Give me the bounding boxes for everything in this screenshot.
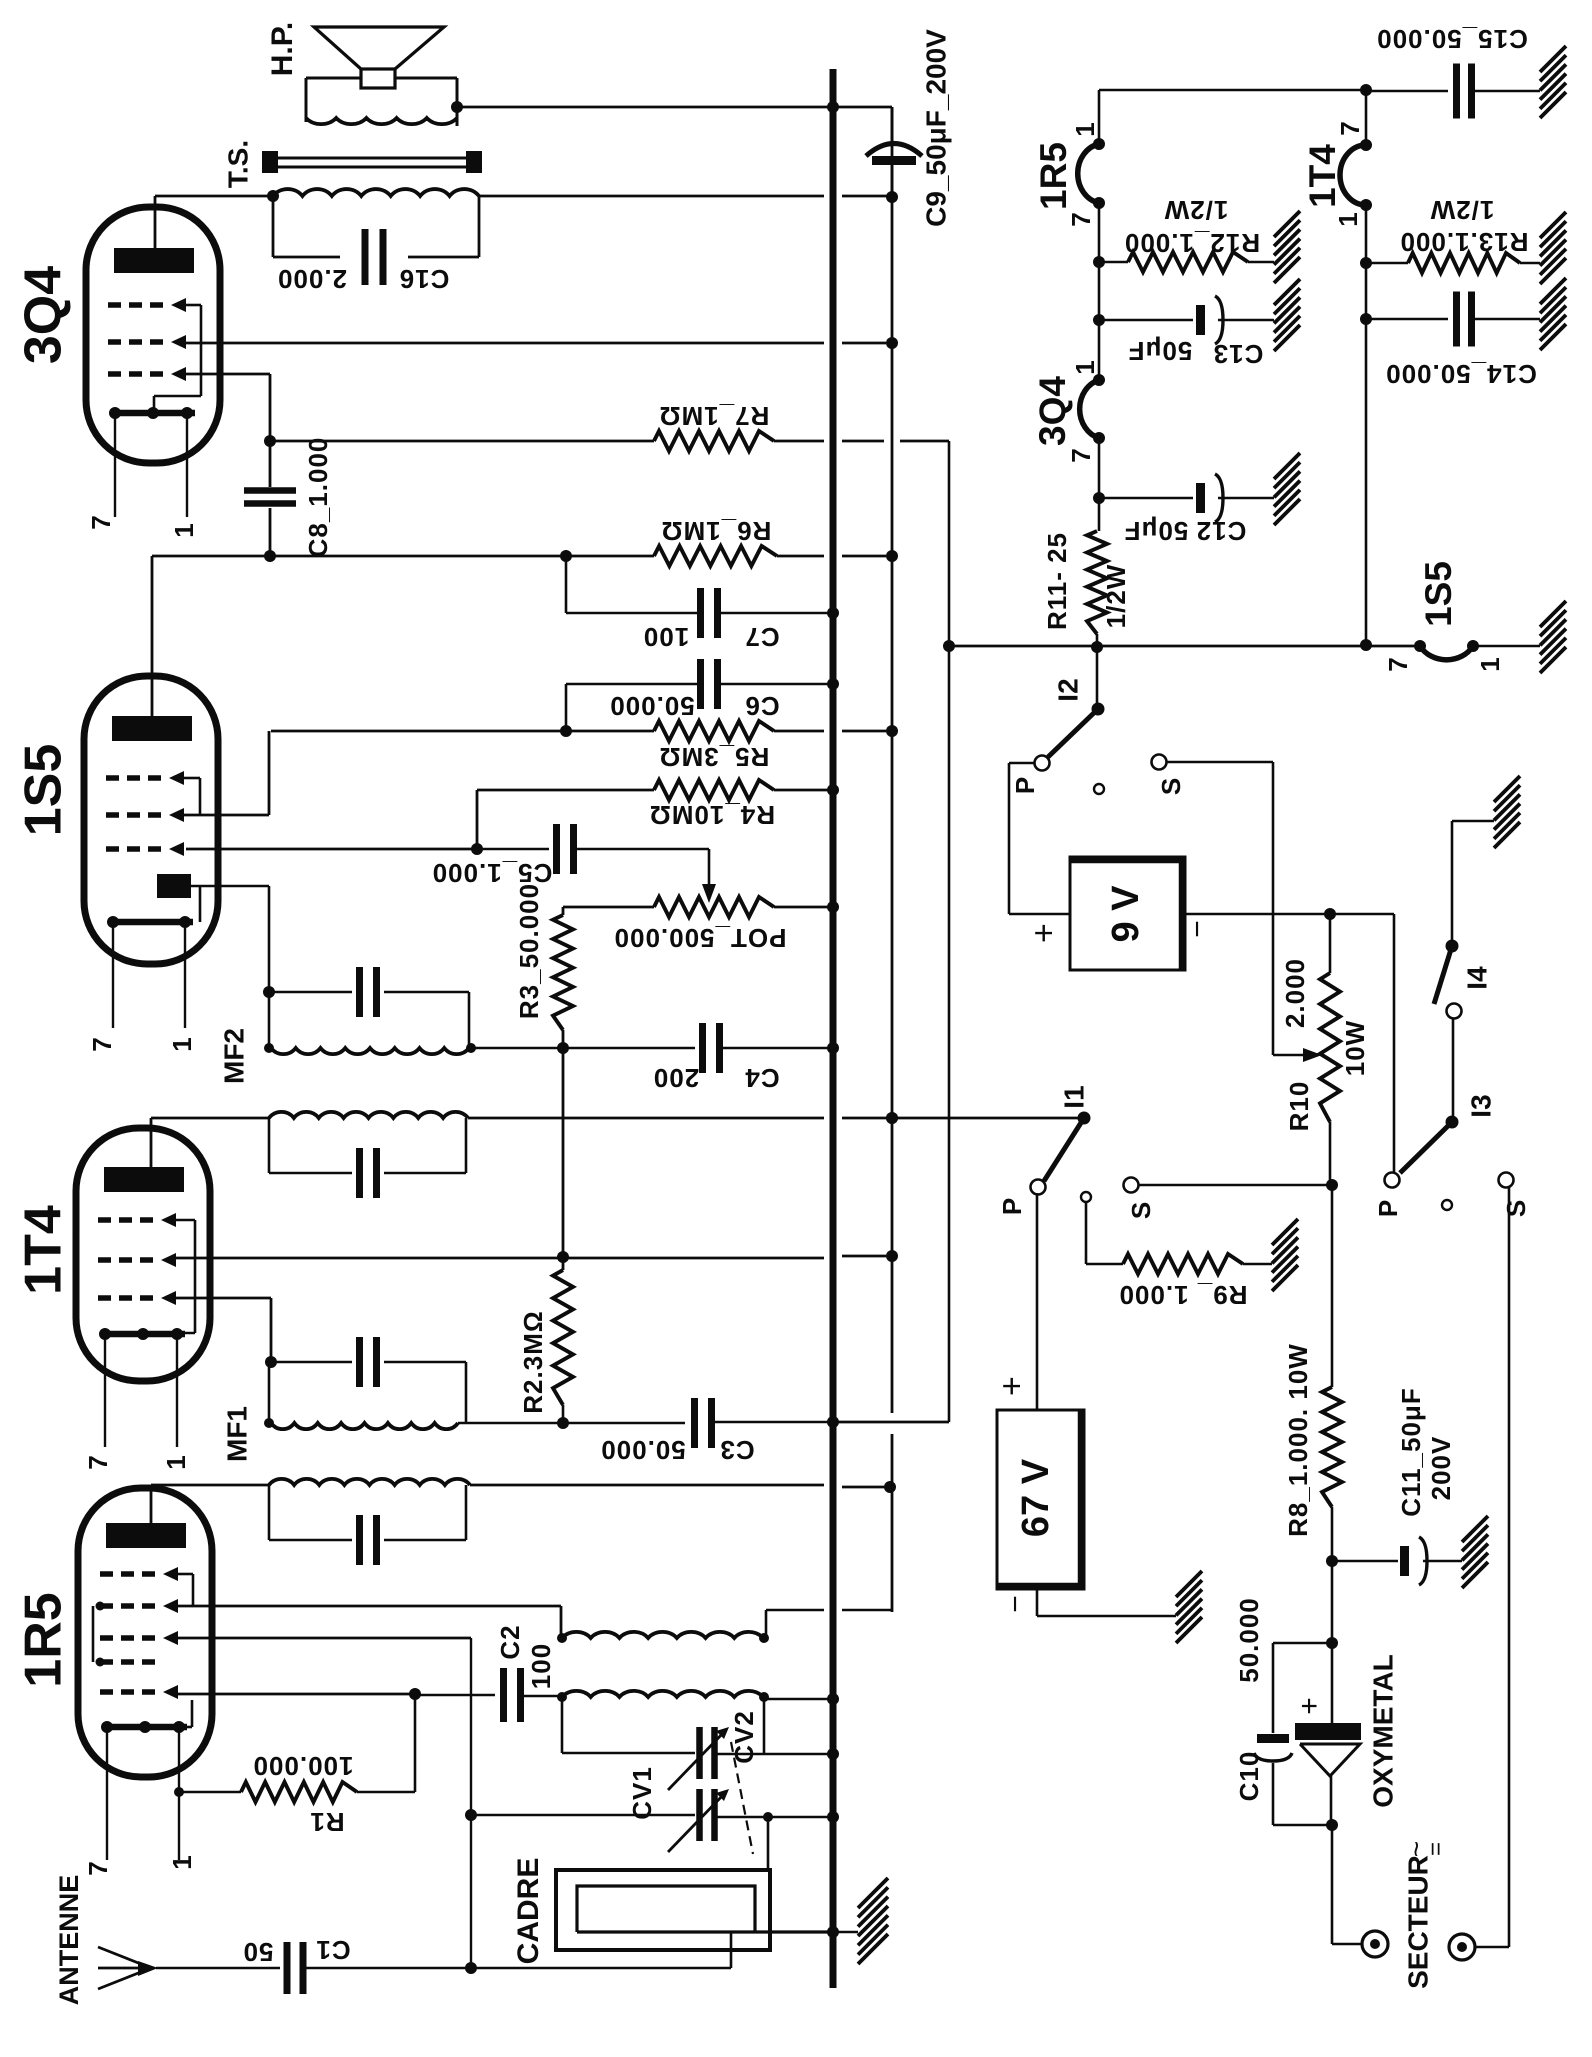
svg-text:1R5: 1R5 bbox=[1033, 142, 1074, 210]
coil MF2 primary bbox=[269, 1112, 468, 1118]
ground C13 bbox=[1274, 279, 1300, 305]
wire POT to bus bbox=[774, 906, 833, 909]
wire T.S. primary right to rail bbox=[479, 195, 824, 198]
svg-text:R3_50.000: R3_50.000 bbox=[514, 883, 544, 1019]
coil MF2 secondary bbox=[271, 1048, 469, 1054]
ground C14 bbox=[1540, 278, 1566, 304]
svg-text:SECTEUR: SECTEUR bbox=[1402, 1855, 1433, 1989]
capacitor C9 bbox=[891, 107, 894, 147]
capacitor C12 bbox=[1196, 483, 1205, 513]
wire I4 to ground bbox=[1451, 821, 1454, 946]
wire MF2 box left top bbox=[268, 992, 271, 1048]
wire MF1 primary left bbox=[151, 1484, 269, 1487]
socket SECTEUR left bbox=[1362, 1931, 1388, 1957]
svg-text:50μF: 50μF bbox=[1124, 516, 1189, 546]
wire I1 mid to R9 bbox=[1085, 1202, 1088, 1264]
wire MF1 primary right to rail bbox=[470, 1484, 824, 1487]
wire heater bottom line bbox=[949, 645, 1420, 648]
svg-text:C8_1.000: C8_1.000 bbox=[303, 437, 333, 558]
switch I2 bbox=[1092, 703, 1105, 716]
resistor R10 bbox=[1329, 914, 1332, 973]
wire R12 to ground bbox=[1248, 261, 1274, 264]
transformer T.S. core bbox=[268, 157, 481, 160]
node rail-plate supply bbox=[886, 191, 898, 203]
node R2 top bbox=[557, 1251, 569, 1263]
svg-text:−: − bbox=[999, 1595, 1032, 1613]
wire battery minus drop to I3 bbox=[1393, 914, 1396, 1173]
capacitor C5 bbox=[477, 848, 549, 851]
wire 3Q4 grid3 drop bbox=[186, 373, 270, 376]
wire heater left rail bbox=[1098, 90, 1101, 144]
svg-text:200V: 200V bbox=[1426, 1436, 1456, 1501]
svg-text:3Q4: 3Q4 bbox=[1032, 376, 1073, 446]
coil MF1 primary bbox=[269, 1479, 470, 1485]
wire R6 to bus hop bbox=[777, 555, 824, 558]
svg-text:67 V: 67 V bbox=[1015, 1458, 1057, 1537]
resistor R8 bbox=[1331, 1185, 1334, 1387]
wire R5 line bbox=[271, 730, 654, 733]
svg-text:1: 1 bbox=[161, 1454, 191, 1469]
svg-text:7: 7 bbox=[83, 1454, 113, 1469]
svg-text:3Q4: 3Q4 bbox=[15, 266, 73, 364]
wire I1 S line bbox=[1138, 1184, 1332, 1187]
ground R12 bbox=[1274, 211, 1300, 237]
wire heater right rail bbox=[1365, 90, 1368, 145]
wire 67V plus riser bbox=[1036, 1193, 1039, 1410]
svg-text:POT_500.000: POT_500.000 bbox=[614, 923, 787, 953]
filament 1S5 bbox=[1420, 646, 1473, 660]
svg-text:50: 50 bbox=[243, 1937, 274, 1967]
resistor R5 bbox=[654, 721, 774, 741]
wire I2 S drop bbox=[1167, 761, 1273, 764]
wire bus to C9 top bbox=[833, 106, 892, 109]
svg-text:1S5: 1S5 bbox=[1418, 561, 1459, 627]
socket SECTEUR right bbox=[1449, 1934, 1475, 1960]
capacitor CV2 bbox=[562, 1752, 695, 1755]
wire CV2 riser bbox=[763, 1697, 766, 1753]
wire R12 line bbox=[1099, 261, 1128, 264]
ground bus ground bbox=[833, 1931, 858, 1934]
svg-text:C10: C10 bbox=[1234, 1751, 1264, 1802]
coil T.S. secondary bbox=[306, 118, 457, 124]
node grid1 junction bbox=[409, 1688, 421, 1700]
wire R7 line bbox=[270, 440, 654, 443]
ground 1S5 fil bbox=[1540, 601, 1566, 627]
wire grid3 1S5 line bbox=[186, 848, 477, 851]
ground 67V bbox=[1176, 1571, 1202, 1597]
wire R11 bottom bbox=[1096, 634, 1099, 647]
wire main chassis bus bbox=[830, 69, 837, 1988]
coil oscillator feedback bbox=[562, 1632, 763, 1638]
capacitor C8 bbox=[269, 441, 272, 487]
filament 1T4 bbox=[1340, 145, 1366, 205]
arrow CV2 bbox=[668, 1730, 726, 1790]
battery 9V bbox=[1070, 857, 1185, 970]
node C11 junction bbox=[1326, 1555, 1338, 1567]
capacitor C10 bbox=[1257, 1734, 1289, 1743]
node R1 left bbox=[174, 1787, 184, 1797]
wire speaker box bbox=[306, 77, 361, 80]
filament 1R5 bbox=[1078, 144, 1099, 203]
wire osc tank left drop bbox=[561, 1697, 564, 1753]
wire divider column bbox=[562, 1048, 565, 1270]
svg-text:100.000: 100.000 bbox=[253, 1751, 354, 1781]
svg-text:100: 100 bbox=[643, 622, 689, 652]
wire C10 branch bbox=[1273, 1642, 1332, 1645]
node C10 bottom bbox=[1326, 1819, 1338, 1831]
arrow CV1 bbox=[668, 1792, 726, 1852]
svg-text:100: 100 bbox=[526, 1643, 556, 1689]
switch I1 bbox=[1078, 1112, 1091, 1125]
wire osc tank right to bus bbox=[764, 1698, 833, 1701]
node R2 bottom junction bbox=[557, 1417, 569, 1429]
tube 1R5 bbox=[78, 1488, 212, 1777]
wire 3Q4 grid2 line bbox=[186, 342, 824, 345]
capacitor MF1 bottom bbox=[268, 1485, 271, 1540]
resistor R1 bbox=[241, 1782, 357, 1802]
capacitor C13 bbox=[1196, 305, 1205, 335]
svg-text:I2: I2 bbox=[1052, 678, 1083, 701]
node heater top right bbox=[1360, 84, 1372, 96]
resistor R12 bbox=[1128, 252, 1248, 272]
wire MF2 primary line to 1T4 bbox=[151, 1117, 269, 1120]
svg-text:C1: C1 bbox=[315, 1935, 350, 1965]
wire signal grid drop bbox=[470, 1638, 472, 1968]
svg-text:50μF: 50μF bbox=[1128, 336, 1193, 366]
wire 1T4 plate riser bbox=[150, 1118, 153, 1167]
wire 1S5 grid2 exit bbox=[179, 814, 269, 817]
svg-text:1R5: 1R5 bbox=[15, 1592, 73, 1687]
svg-text:50.000: 50.000 bbox=[1234, 1597, 1264, 1683]
svg-text:C14_50.000: C14_50.000 bbox=[1385, 359, 1537, 389]
svg-text:I1: I1 bbox=[1058, 1085, 1089, 1108]
wire 1S5 plate riser bbox=[151, 556, 154, 716]
node bus C4 bbox=[827, 1042, 839, 1054]
svg-text:C2: C2 bbox=[495, 1624, 525, 1659]
svg-text:MF2: MF2 bbox=[218, 1028, 249, 1084]
wire C12 line bbox=[1099, 497, 1193, 500]
resistor R6 bbox=[654, 546, 777, 566]
ground C12 bbox=[1274, 453, 1300, 479]
node osc feedback right bbox=[759, 1633, 769, 1643]
svg-text:MF1: MF1 bbox=[221, 1406, 252, 1462]
wire osc feedback to rail bbox=[765, 1610, 768, 1638]
svg-text:7: 7 bbox=[1066, 211, 1096, 226]
svg-text:1/2W: 1/2W bbox=[1430, 195, 1495, 225]
node R6 left junction bbox=[560, 550, 572, 562]
capacitor MF2 top bbox=[269, 991, 352, 994]
wire MF2 primary right to rail bbox=[468, 1117, 824, 1120]
resistor R13 bbox=[1408, 253, 1520, 273]
coil oscillator main bbox=[562, 1691, 763, 1697]
svg-text:+: + bbox=[993, 1376, 1031, 1396]
arrow R10 tap bbox=[1273, 1054, 1310, 1057]
resistor R9 bbox=[1086, 1263, 1123, 1266]
svg-text:C9_50μF_200V: C9_50μF_200V bbox=[920, 29, 951, 227]
svg-text:C11_50μF: C11_50μF bbox=[1396, 1387, 1426, 1516]
svg-text:2.000: 2.000 bbox=[1280, 958, 1310, 1028]
svg-text:CV2: CV2 bbox=[729, 1710, 759, 1764]
capacitor C14 bbox=[1366, 318, 1448, 321]
wire R13 to ground bbox=[1520, 262, 1540, 265]
speaker HP cone bbox=[314, 27, 444, 69]
node bus cadre bbox=[827, 1926, 839, 1938]
ground R13 bbox=[1540, 212, 1566, 238]
wire plate 3Q4 to primary bbox=[155, 195, 273, 198]
wire 1T4 grid2 line bbox=[176, 1257, 824, 1260]
node R3 bottom junction bbox=[557, 1042, 569, 1054]
svg-text:1: 1 bbox=[1070, 121, 1100, 136]
node MF2 sec right bbox=[466, 1043, 476, 1053]
wire R4 to bus bbox=[774, 789, 833, 792]
node C10 top bbox=[1326, 1637, 1338, 1649]
svg-text:C3: C3 bbox=[719, 1435, 754, 1465]
resistor R11 bbox=[1087, 531, 1107, 634]
capacitor MF2 bottom bbox=[268, 1118, 271, 1173]
node rail I1 bbox=[886, 1112, 898, 1124]
node rail MF1 bbox=[884, 1481, 896, 1493]
svg-text:R6_1MΩ: R6_1MΩ bbox=[661, 516, 772, 546]
resistor R4 bbox=[654, 780, 774, 800]
node bus R4 bbox=[827, 784, 839, 796]
svg-text:C7: C7 bbox=[744, 622, 779, 652]
capacitor MF1 top bbox=[271, 1361, 352, 1364]
capacitor C7 bbox=[566, 612, 701, 615]
wire R10 bottom bbox=[1329, 1122, 1332, 1185]
wire 67V minus to ground bbox=[1036, 1589, 1039, 1616]
svg-text:R13.1.000: R13.1.000 bbox=[1400, 227, 1529, 257]
node bus-speaker junction bbox=[827, 101, 839, 113]
svg-text:50.000: 50.000 bbox=[609, 691, 695, 721]
wire C3 line bus to return bbox=[833, 1421, 949, 1424]
node return bottom bbox=[943, 640, 955, 652]
svg-text:S: S bbox=[1126, 1201, 1156, 1219]
node R8 top junction bbox=[1326, 1179, 1338, 1191]
capacitor C3 bbox=[563, 1422, 685, 1425]
wire POT left bbox=[563, 906, 654, 909]
diode OXYMETAL bbox=[1331, 1643, 1334, 1723]
node MF2 top left bbox=[263, 986, 275, 998]
svg-text:R11- 25: R11- 25 bbox=[1042, 532, 1072, 630]
svg-text:+: + bbox=[1293, 1697, 1326, 1715]
coil T.S. primary bbox=[273, 189, 479, 196]
resistor R3 bbox=[553, 915, 573, 1030]
svg-text:CV1: CV1 bbox=[627, 1766, 657, 1820]
svg-text:1/2W: 1/2W bbox=[1101, 564, 1131, 629]
node rail R5 bbox=[886, 725, 898, 737]
svg-text:R1: R1 bbox=[309, 1807, 344, 1837]
tube 3Q4 bbox=[86, 207, 220, 463]
svg-text:T.S.: T.S. bbox=[222, 140, 253, 188]
wire I4-I3 link bbox=[1452, 1018, 1455, 1122]
svg-text:H.P.: H.P. bbox=[266, 22, 299, 76]
node bus C7 bbox=[827, 607, 839, 619]
svg-text:C16: C16 bbox=[399, 264, 450, 294]
svg-text:7: 7 bbox=[86, 514, 116, 529]
node C12 junction bbox=[1093, 492, 1105, 504]
svg-text:1: 1 bbox=[167, 1854, 197, 1869]
svg-text:1: 1 bbox=[1070, 359, 1100, 374]
node MF2 sec left bbox=[264, 1043, 274, 1053]
coil MF1 secondary bbox=[271, 1423, 458, 1429]
wire cadre inner lead bbox=[577, 1930, 833, 1933]
ground C11 bbox=[1462, 1516, 1488, 1542]
node C5 junction bbox=[471, 843, 483, 855]
svg-text:9 V: 9 V bbox=[1105, 885, 1147, 943]
wire R6 line bbox=[152, 555, 654, 558]
svg-text:I4: I4 bbox=[1461, 966, 1492, 990]
wire B+ rail vertical bbox=[891, 107, 894, 1413]
svg-text:R7_1MΩ: R7_1MΩ bbox=[659, 401, 770, 431]
resistor POT bbox=[654, 897, 774, 917]
ground R9 bbox=[1272, 1219, 1298, 1245]
svg-text:P: P bbox=[997, 1197, 1027, 1215]
svg-text:OXYMETAL: OXYMETAL bbox=[1367, 1654, 1398, 1807]
resistor R7 bbox=[654, 431, 774, 451]
switch I3 bbox=[1446, 1116, 1459, 1129]
svg-text:CADRE: CADRE bbox=[512, 1858, 545, 1965]
svg-text:7: 7 bbox=[1066, 447, 1096, 462]
wire osc grid line bbox=[178, 1605, 561, 1608]
node R10 top bbox=[1324, 908, 1336, 920]
node bus C6 bbox=[827, 678, 839, 690]
wire 9V minus bbox=[1185, 913, 1394, 916]
tube 1S5 bbox=[84, 676, 218, 964]
battery 67V bbox=[997, 1410, 1084, 1589]
wire POT tap arrow bbox=[708, 849, 711, 886]
node R13 junction bbox=[1360, 257, 1372, 269]
wire cadre outer riser bbox=[767, 1817, 770, 1870]
svg-text:1: 1 bbox=[1475, 656, 1505, 671]
svg-text:2.000: 2.000 bbox=[277, 264, 347, 294]
svg-text:50.000: 50.000 bbox=[600, 1435, 686, 1465]
node bus POT bbox=[827, 901, 839, 913]
svg-text:1: 1 bbox=[167, 1036, 197, 1051]
node R12 junction bbox=[1093, 256, 1105, 268]
node T.S. primary left bbox=[267, 190, 279, 202]
svg-text:7: 7 bbox=[1383, 656, 1413, 671]
svg-text:1: 1 bbox=[169, 522, 199, 537]
coil CADRE inner bbox=[577, 1886, 755, 1932]
svg-text:R12_1.000: R12_1.000 bbox=[1124, 228, 1260, 258]
wire R1 drop bbox=[414, 1694, 417, 1792]
capacitor C11 bbox=[1332, 1560, 1398, 1563]
wire 1S5 diode drop bbox=[268, 886, 271, 992]
antenna ANTENNE bbox=[98, 1947, 151, 1968]
svg-text:C12: C12 bbox=[1196, 516, 1247, 546]
svg-text:7: 7 bbox=[1335, 120, 1365, 135]
capacitor C1 bbox=[156, 1967, 280, 1970]
svg-text:C13: C13 bbox=[1213, 339, 1264, 369]
node MF1 top left bbox=[265, 1356, 277, 1368]
wire C6 drop to R5 line bbox=[565, 684, 568, 731]
wire rectifier top bbox=[1331, 1561, 1334, 1643]
coil CADRE outer bbox=[556, 1870, 770, 1950]
wire mains right riser bbox=[1476, 1946, 1509, 1949]
svg-text:1/2W: 1/2W bbox=[1164, 195, 1229, 225]
wire heater top tie bbox=[1099, 89, 1366, 92]
node bus osc bbox=[827, 1693, 839, 1705]
wire R3 bottom bbox=[562, 1030, 565, 1048]
wire R4 drop bbox=[476, 790, 479, 849]
wire R7 to bus hop bbox=[774, 440, 824, 443]
wire filament return to bus bbox=[833, 1421, 949, 1424]
wire R4 line bbox=[477, 789, 654, 792]
wire C7 drop bbox=[565, 556, 568, 613]
capacitor C2 bbox=[415, 1694, 495, 1697]
svg-text:S: S bbox=[1156, 777, 1186, 795]
wire to mains left bbox=[1331, 1825, 1334, 1944]
svg-text:R4_10MΩ: R4_10MΩ bbox=[649, 800, 775, 830]
node speaker output bbox=[451, 101, 463, 113]
wire antenna to cadre bbox=[471, 1967, 731, 1970]
wire MF2 box right top bbox=[468, 992, 471, 1048]
wire 1T4 grid3 drop bbox=[176, 1297, 271, 1300]
wire I1 line bbox=[892, 1117, 1084, 1120]
wire gang dashed link bbox=[731, 1742, 753, 1854]
capacitor C6 bbox=[566, 683, 701, 686]
wire I2 P to 9V+ bbox=[1009, 762, 1034, 765]
svg-text:C6: C6 bbox=[744, 691, 779, 721]
node bus CV2 bbox=[827, 1748, 839, 1760]
svg-text:+: + bbox=[1025, 923, 1063, 943]
node osc coil top left bbox=[557, 1692, 567, 1702]
node C8 bottom junction bbox=[264, 550, 276, 562]
wire I2 riser bbox=[1096, 647, 1099, 709]
wire R5 to bus hop bbox=[774, 730, 824, 733]
node I2 line junction bbox=[1091, 641, 1103, 653]
resistor R2 bbox=[553, 1270, 573, 1405]
node C14 junction bbox=[1360, 313, 1372, 325]
wire 1R5 plate riser bbox=[150, 1485, 153, 1523]
node rail MF2 bbox=[886, 1112, 898, 1124]
node C13 junction bbox=[1093, 314, 1105, 326]
ground C15 bbox=[1540, 46, 1566, 72]
wire signal grid line bbox=[178, 1637, 471, 1640]
wire grid1 line bbox=[178, 1693, 415, 1696]
svg-text:R5_3MΩ: R5_3MΩ bbox=[659, 742, 770, 772]
wire speaker line to bus bbox=[457, 106, 833, 109]
node R5 junction bbox=[560, 725, 572, 737]
node MF1 sec left bbox=[264, 1418, 274, 1428]
svg-text:P: P bbox=[1010, 776, 1040, 794]
wire 1S5 fil to ground bbox=[1473, 645, 1540, 648]
svg-text:R10: R10 bbox=[1284, 1081, 1314, 1132]
capacitor C4 bbox=[477, 1047, 695, 1050]
svg-text:7: 7 bbox=[87, 1036, 117, 1051]
node CV1 left junction bbox=[465, 1809, 477, 1821]
svg-text:1: 1 bbox=[1333, 211, 1363, 226]
wire R13 line bbox=[1366, 262, 1408, 265]
svg-text:C4: C4 bbox=[744, 1063, 779, 1093]
svg-text:1T4: 1T4 bbox=[15, 1205, 73, 1295]
node bus CV1 bbox=[827, 1811, 839, 1823]
wire C13 line bbox=[1099, 319, 1193, 322]
node antenna junction bbox=[465, 1962, 477, 1974]
node bus C3 bbox=[827, 1416, 839, 1428]
node osc feedback left bbox=[557, 1633, 567, 1643]
capacitor C15 bbox=[1366, 90, 1448, 93]
node C8 top junction bbox=[264, 435, 276, 447]
svg-text:10W: 10W bbox=[1340, 1020, 1370, 1076]
capacitor CV1 bbox=[471, 1814, 695, 1817]
svg-text:ANTENNE: ANTENNE bbox=[54, 1875, 84, 2006]
node osc coil right bbox=[759, 1692, 769, 1702]
wire MF1 sec right line bbox=[458, 1422, 563, 1425]
node rail grid2 1T4 bbox=[886, 1250, 898, 1262]
svg-text:1S5: 1S5 bbox=[15, 744, 73, 837]
tube 1T4 bbox=[76, 1128, 210, 1381]
